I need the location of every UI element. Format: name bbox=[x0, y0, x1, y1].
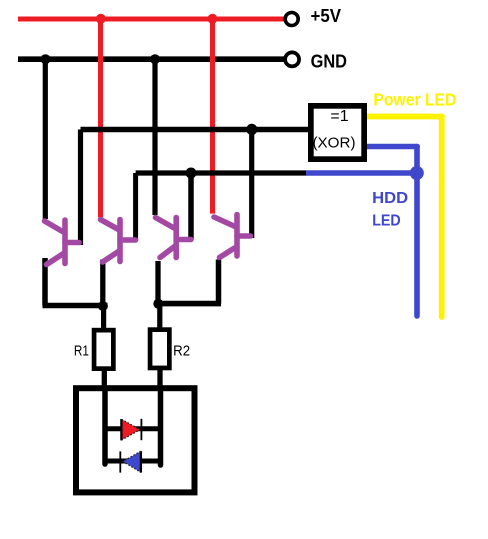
junction dot on +5V rail (right) bbox=[208, 14, 218, 24]
wire anode bus right bbox=[158, 388, 164, 465]
LED D2 cathode bar bbox=[119, 451, 121, 472]
svg-text:(XOR): (XOR) bbox=[313, 135, 356, 152]
LED D1 (red) bbox=[122, 419, 141, 440]
svg-text:=1: =1 bbox=[330, 108, 348, 125]
wire node to R1 bbox=[101, 306, 106, 331]
junction dot on GND rail (left) bbox=[41, 54, 51, 64]
svg-text:+5V: +5V bbox=[311, 6, 342, 26]
wire HDD net blue segment bbox=[306, 170, 417, 175]
LED D2 cathode edge bbox=[140, 451, 142, 472]
transistor Q1 bbox=[45, 220, 80, 265]
junction node A bbox=[246, 124, 257, 135]
HDD LED wire from XOR horizontal segment (blue) bbox=[367, 144, 417, 150]
junction blue HDD node bbox=[410, 166, 424, 180]
GND rail wire bbox=[18, 56, 285, 62]
wire emitters Q3-Q4 join bbox=[155, 301, 222, 307]
wire node A to Q1 base bbox=[78, 130, 83, 246]
LED D1 cathode bar bbox=[140, 419, 142, 440]
svg-text:Power LED: Power LED bbox=[373, 90, 456, 110]
wire node B to Q2 base bbox=[133, 173, 138, 240]
LED module box bbox=[76, 388, 195, 492]
wire node B to Q3 base bbox=[188, 173, 194, 239]
wire +5V to Q4 collector bbox=[210, 19, 215, 214]
transistor Q3 bbox=[156, 218, 192, 258]
wire +5V to Q2 collector bbox=[98, 19, 103, 217]
XOR gate U1 body bbox=[311, 106, 364, 159]
wire R2 to LED box bbox=[157, 369, 162, 392]
wire red LED branch bbox=[105, 426, 161, 431]
wire R1 to LED box bbox=[102, 370, 107, 392]
wire Q2 emitter bbox=[100, 260, 105, 307]
svg-text:R1: R1 bbox=[74, 343, 89, 360]
wire anode bus left bbox=[102, 388, 108, 464]
transistor Q2 bbox=[101, 220, 136, 263]
+5V rail wire bbox=[18, 17, 285, 22]
wire Q4 emitter bbox=[216, 260, 222, 304]
resistor R1 bbox=[94, 330, 113, 369]
LED D2 (blue) bbox=[123, 451, 141, 472]
wire emitters Q1-Q2 join bbox=[43, 303, 108, 309]
wire node A horizontal (XOR input net) bbox=[81, 127, 312, 132]
wire node to R2 bbox=[157, 304, 162, 331]
svg-text:HDD: HDD bbox=[372, 190, 408, 207]
Power LED wire horizontal segment (yellow) bbox=[367, 114, 442, 120]
wire Q3 emitter bbox=[155, 261, 160, 304]
svg-text:GND: GND bbox=[311, 52, 347, 72]
LED D2 marquee edges bbox=[123, 451, 141, 472]
resistor R2 bbox=[150, 330, 169, 368]
LED D1 marquee edges bbox=[122, 419, 141, 440]
svg-text:R2: R2 bbox=[173, 343, 190, 360]
LED D1 anode edge bbox=[120, 419, 122, 440]
wire GND to Q3 collector bbox=[152, 59, 157, 215]
svg-text:LED: LED bbox=[372, 213, 401, 230]
junction dot on GND rail (right) bbox=[150, 54, 160, 64]
GND terminal bbox=[285, 52, 299, 66]
wire Q1 emitter bbox=[42, 258, 48, 306]
junction node B bbox=[186, 168, 197, 179]
Power LED wire vertical segment (yellow) bbox=[439, 117, 445, 318]
junction emitter node R1 bbox=[98, 301, 108, 311]
HDD LED wire vertical segment (blue) bbox=[414, 147, 420, 317]
wire node B horizontal (HDD net, black part) bbox=[136, 170, 307, 175]
wire node A to Q4 base bbox=[249, 130, 254, 239]
junction dot on +5V rail (left) bbox=[96, 14, 106, 24]
transistor Q4 bbox=[214, 215, 251, 258]
+5V terminal bbox=[285, 13, 298, 26]
junction emitter node R2 bbox=[153, 299, 163, 309]
wire GND to Q1 collector bbox=[43, 59, 48, 219]
wire blue LED branch bbox=[105, 459, 161, 464]
